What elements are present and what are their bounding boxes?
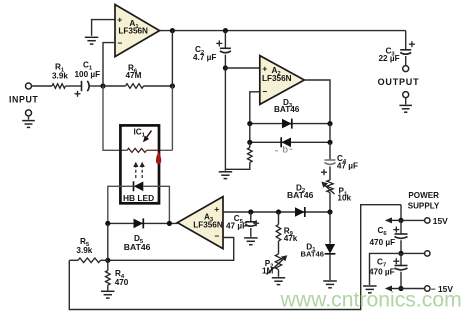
svg-text:BAT46: BAT46 — [274, 105, 300, 114]
node A1 inverting input junction — [100, 83, 105, 88]
output ground terminal — [399, 92, 412, 113]
svg-text:+: + — [214, 204, 219, 214]
label C1 — [75, 61, 101, 80]
svg-text:470 µF: 470 µF — [369, 268, 395, 277]
label R6 — [126, 64, 142, 80]
node 0V — [398, 251, 430, 256]
svg-text:47 µF: 47 µF — [337, 162, 358, 171]
power supply ground — [363, 286, 377, 293]
wire C2 column to ground — [224, 68, 226, 171]
label C7 — [369, 258, 395, 277]
svg-text:47k: 47k — [284, 234, 298, 243]
diode D5 BAT46 — [134, 218, 144, 228]
input terminal — [9, 83, 38, 105]
capacitor C2 4.7uF — [216, 28, 231, 68]
capacitor C4 47uF — [321, 142, 336, 180]
svg-text:3.9k: 3.9k — [52, 71, 68, 80]
label P1 — [337, 187, 351, 203]
label P2 — [262, 259, 274, 276]
photoresistor pointer arrow — [143, 131, 152, 143]
red drop marker — [156, 152, 161, 165]
svg-text:BAT46: BAT46 — [301, 249, 325, 258]
svg-text:BAT46: BAT46 — [124, 242, 151, 252]
ground below D1 — [323, 281, 337, 288]
capacitor C5 47uF — [244, 212, 259, 245]
LED light arrows dashed — [133, 162, 145, 178]
capacitor C6 470uF — [393, 220, 407, 253]
label HB LED — [123, 193, 154, 203]
ground at A1 + input — [85, 37, 99, 44]
svg-text:3.9k: 3.9k — [76, 246, 92, 255]
resistor R1 3.9k — [52, 84, 66, 89]
capacitor C3 22uF — [400, 31, 415, 66]
arrow +15V rail — [385, 217, 401, 223]
svg-text:OUTPUT: OUTPUT — [378, 77, 420, 87]
label D3 — [274, 98, 300, 114]
node D4 right — [327, 140, 332, 145]
svg-text:LF356N: LF356N — [118, 26, 148, 35]
svg-text:470 µF: 470 µF — [370, 238, 396, 247]
resistor R5 3.9k — [69, 258, 108, 263]
svg-text:−: − — [117, 38, 122, 48]
wire D5 row — [108, 222, 178, 224]
label D4 — [275, 145, 292, 156]
node D5 left — [105, 221, 110, 226]
potentiometer P1 10k — [321, 180, 334, 212]
capacitor C7 470uF — [393, 253, 407, 288]
svg-text:22 µF: 22 µF — [379, 54, 400, 63]
wire A3 inverting feedback to R5 node — [108, 238, 234, 261]
resistor R9 47k — [276, 212, 281, 254]
diode D3 BAT46 — [282, 119, 292, 129]
label IC1 — [134, 128, 146, 139]
label R9 — [284, 226, 298, 243]
wire bottom rail to power supply — [69, 205, 401, 310]
node C2 to A2 input — [223, 65, 260, 70]
svg-text:47M: 47M — [126, 71, 142, 80]
wire LED column to R5 node — [107, 223, 109, 260]
node A1 output junction — [170, 28, 175, 89]
op-amp A2 LF356N — [260, 56, 305, 105]
svg-text:+: + — [262, 64, 267, 74]
diode D4 — [281, 137, 291, 147]
op-amp A3 LF356N (points left) — [177, 197, 223, 249]
node D3 left — [247, 121, 252, 126]
wire LED terminals down to D5 row — [108, 186, 170, 223]
op-amp A1 LF356N — [115, 5, 160, 57]
node +15V — [398, 216, 448, 226]
LED HB inside IC1 — [134, 181, 144, 191]
node R5 R4 junction — [105, 258, 110, 263]
input ground terminal — [22, 110, 35, 128]
wire A1 noninverting input to ground — [92, 20, 115, 36]
photoresistor inside IC1 — [127, 148, 158, 152]
label C4 — [337, 154, 358, 171]
svg-text:POWER: POWER — [408, 191, 439, 200]
node C5 — [248, 209, 253, 214]
label R1 — [52, 63, 68, 81]
resistor R6 47M — [103, 84, 172, 89]
node D5 right — [167, 221, 172, 226]
wire D3 row — [250, 123, 330, 125]
svg-text:−: − — [214, 231, 219, 241]
node R9 — [276, 209, 281, 214]
svg-text:BAT46: BAT46 — [287, 190, 314, 200]
svg-text:SUPPLY: SUPPLY — [408, 201, 440, 210]
svg-text:10k: 10k — [337, 194, 351, 203]
svg-text:b: b — [283, 145, 288, 156]
wire A2 inverting input down — [250, 92, 260, 124]
capacitor C1 100uF — [75, 81, 90, 97]
svg-text:LF356N: LF356N — [262, 74, 292, 83]
label C3 — [379, 47, 400, 63]
svg-text:47 µF: 47 µF — [226, 222, 247, 231]
svg-text:100 µF: 100 µF — [75, 70, 101, 79]
resistor below D4 — [225, 142, 252, 169]
wire A1 output column down to LDR — [171, 31, 173, 151]
node D3 right — [327, 121, 332, 126]
label D5 — [124, 234, 151, 252]
svg-text:470: 470 — [115, 278, 129, 287]
node -15V — [398, 284, 453, 294]
wire top rail A1 output to C3 — [160, 30, 406, 32]
svg-text:4.7 µF: 4.7 µF — [193, 53, 216, 62]
ground below C2 — [219, 172, 233, 179]
label POWER SUPPLY — [408, 191, 440, 211]
power supply column — [400, 205, 402, 221]
ground below P2 — [272, 278, 285, 285]
svg-text:LF356N: LF356N — [193, 220, 223, 229]
label D2 — [287, 183, 314, 200]
svg-text:+: + — [117, 15, 122, 25]
node P1 bottom D1 top — [327, 209, 332, 214]
svg-text:1M: 1M — [262, 267, 274, 276]
wire R1 to C1 — [66, 85, 82, 87]
diode D2 BAT46 — [295, 207, 305, 217]
svg-text:www.cntronics.com: www.cntronics.com — [280, 289, 462, 312]
resistor R4 470 — [106, 260, 111, 290]
IC1 box — [120, 125, 159, 203]
wire LDR right lead — [147, 149, 173, 151]
svg-text:INPUT: INPUT — [9, 95, 38, 105]
wire A2 output down — [304, 80, 330, 124]
label R5 — [76, 237, 92, 255]
node D4 left — [247, 140, 252, 145]
label C2 — [193, 45, 216, 62]
label R4 — [115, 269, 129, 287]
wire 0V to ground — [370, 253, 402, 285]
label D1 — [301, 242, 325, 258]
arrow -15V rail — [385, 286, 401, 292]
label C5 — [226, 214, 247, 231]
wire A1 inverting input — [103, 43, 115, 86]
potentiometer P2 1M — [267, 254, 288, 277]
svg-text:HB LED: HB LED — [123, 193, 154, 203]
wire input to R1 — [32, 85, 53, 87]
wire C1 to node — [89, 85, 103, 87]
ground below R4 — [101, 291, 115, 298]
diode D1 BAT46 vertical — [325, 212, 336, 280]
label C6 — [370, 226, 396, 247]
wire D4 row — [250, 124, 330, 143]
svg-text:−: − — [262, 87, 267, 97]
output terminal — [378, 66, 420, 87]
wire node to LDR left lead — [103, 86, 127, 150]
svg-text:15V: 15V — [433, 216, 448, 226]
watermark — [280, 289, 462, 312]
wire A3 + row (D2 row) — [223, 211, 330, 213]
